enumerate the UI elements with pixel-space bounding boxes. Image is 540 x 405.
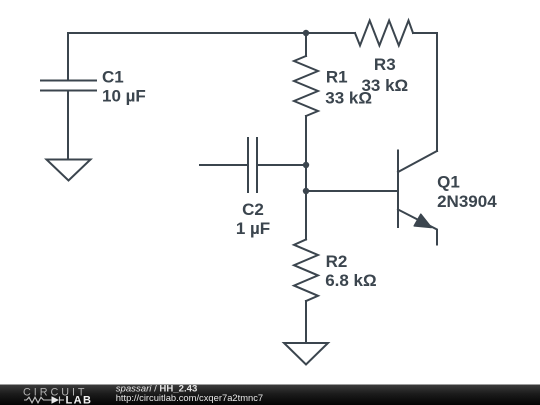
svg-text:R2: R2	[326, 252, 348, 271]
svg-text:10 µF: 10 µF	[102, 87, 146, 106]
svg-text:33 kΩ: 33 kΩ	[361, 76, 408, 95]
svg-text:http://circuitlab.com/cxqer7a2: http://circuitlab.com/cxqer7a2tmnc7	[116, 392, 263, 403]
svg-text:R1: R1	[326, 67, 348, 86]
svg-text:Q1: Q1	[437, 173, 460, 192]
svg-text:C1: C1	[102, 68, 124, 87]
svg-text:1 µF: 1 µF	[236, 219, 270, 238]
svg-text:2N3904: 2N3904	[437, 192, 497, 211]
svg-text:R3: R3	[374, 55, 396, 74]
svg-text:LAB: LAB	[66, 394, 93, 405]
svg-text:C2: C2	[242, 200, 264, 219]
svg-text:6.8 kΩ: 6.8 kΩ	[325, 271, 376, 290]
